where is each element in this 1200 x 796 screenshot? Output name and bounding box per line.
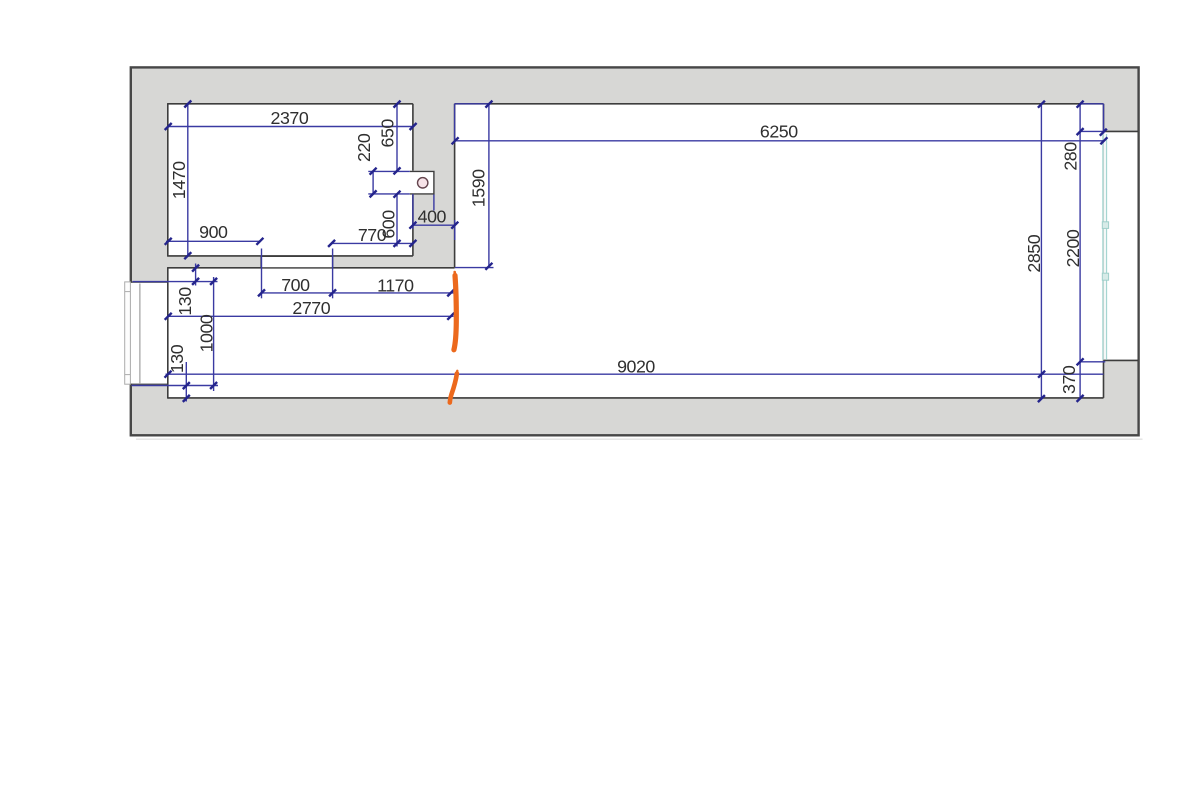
svg-text:1000: 1000 xyxy=(196,314,216,352)
room1 right wall xyxy=(412,104,414,256)
dim line 6250 xyxy=(455,140,1105,142)
dim chain 280/2200/370 xyxy=(1079,104,1081,399)
ticks 600 xyxy=(394,191,401,198)
svg-text:770: 770 xyxy=(358,225,387,245)
svg-text:2370: 2370 xyxy=(271,108,309,128)
ext overlay on room1 right wall below niche xyxy=(412,194,414,229)
ticks 1000 xyxy=(210,278,217,285)
svg-text:1590: 1590 xyxy=(469,169,489,207)
corridor left wall xyxy=(167,268,169,399)
interior door opening in room1 bottom wall xyxy=(261,257,333,268)
window void through right wall xyxy=(1104,132,1137,360)
ext niche bottom xyxy=(368,193,410,195)
svg-text:2850: 2850 xyxy=(1024,234,1044,272)
entry notch top jamb xyxy=(130,281,168,283)
dim line 1470 xyxy=(187,104,189,256)
ext down window inner face xyxy=(1103,104,1105,134)
ticks 220 xyxy=(370,168,377,175)
dim line 2370 xyxy=(168,126,413,128)
ticks 130 bottom xyxy=(183,382,190,389)
ext line below niche right edge xyxy=(433,195,435,211)
svg-text:400: 400 xyxy=(418,207,447,227)
concrete slab (exterior walls) xyxy=(131,67,1139,435)
dimension labels xyxy=(167,108,1083,394)
corridor interior (bottom band) xyxy=(169,269,456,398)
door opening right jamb xyxy=(332,256,334,268)
room2 left wall xyxy=(454,104,456,268)
dim line 700/1170 xyxy=(262,292,454,294)
room2 top wall xyxy=(455,103,1104,105)
ticks chain 280/2200/370 xyxy=(1077,101,1084,108)
ext overlay on room2 left wall at 400 dim xyxy=(454,220,456,240)
corridor / room2 bottom wall xyxy=(168,397,1104,399)
ext over room2 corner vertical xyxy=(454,104,456,142)
room1 bottom wall top face xyxy=(167,255,413,257)
svg-text:9020: 9020 xyxy=(617,356,655,376)
orange marker stroke upper (planned partition) xyxy=(450,272,458,403)
window sash mark upper xyxy=(1102,222,1108,229)
room 2 interior (big right room) xyxy=(455,105,1103,398)
svg-text:700: 700 xyxy=(281,275,310,295)
ticks 2850 xyxy=(1038,101,1045,108)
entry notch bottom jamb xyxy=(130,383,168,385)
dim line 9020 xyxy=(166,373,1104,375)
dim line 1590 xyxy=(488,104,490,267)
dim line 220 xyxy=(372,171,374,194)
svg-text:370: 370 xyxy=(1059,365,1079,394)
ticks 9020 xyxy=(165,371,172,378)
ticks 770 xyxy=(328,240,335,247)
niche outline (open left side) xyxy=(410,171,434,194)
svg-text:130: 130 xyxy=(167,344,187,373)
corridor top wall line xyxy=(167,267,455,269)
ventilation niche through room1 right wall xyxy=(410,171,434,195)
wall above window xyxy=(1103,104,1105,132)
ticks 1590 xyxy=(485,101,492,108)
ticks 650 xyxy=(394,101,401,108)
exterior door leaf line inside notch xyxy=(139,284,141,384)
wall below window xyxy=(1103,360,1105,398)
ext along top wall to window face xyxy=(1080,103,1103,105)
svg-text:1470: 1470 xyxy=(169,161,189,199)
ext for 1590 bottom tick xyxy=(455,267,494,269)
dim line 2770 xyxy=(168,315,454,317)
svg-text:650: 650 xyxy=(378,119,398,148)
dim line 900 xyxy=(166,240,260,242)
ticks 900 xyxy=(165,238,172,245)
dim line 770 xyxy=(331,242,413,244)
svg-text:280: 280 xyxy=(1061,142,1081,171)
svg-text:220: 220 xyxy=(354,133,374,162)
door opening left jamb xyxy=(260,256,262,268)
ext niche top xyxy=(368,170,410,172)
room1 top wall xyxy=(167,103,413,105)
svg-text:130: 130 xyxy=(175,287,195,316)
svg-text:900: 900 xyxy=(199,222,228,242)
orange marker stroke lower xyxy=(456,371,459,375)
room 1 interior (top-left room) xyxy=(169,105,413,256)
ext line door gap right xyxy=(332,249,334,299)
window bottom jamb xyxy=(1104,359,1139,361)
ext over room2 corner horizontal xyxy=(455,103,490,105)
blue dimension lines xyxy=(166,104,1105,402)
exterior door leaf marks outside left wall xyxy=(125,282,131,384)
faint shadow line below slab xyxy=(136,438,1143,440)
dimension tick marks xyxy=(165,101,1108,403)
ticks 700/1170 xyxy=(258,289,265,296)
svg-text:2770: 2770 xyxy=(292,298,330,318)
ext line door bottom-left upper xyxy=(133,281,218,283)
ext line door bottom-left lower xyxy=(132,385,219,387)
dim line 650 xyxy=(396,104,398,171)
window sash mark lower xyxy=(1102,273,1108,280)
svg-text:6250: 6250 xyxy=(760,121,798,141)
entry door notch through left wall xyxy=(129,283,167,384)
ext window bottom corner xyxy=(1080,361,1106,363)
svg-text:2200: 2200 xyxy=(1063,229,1083,267)
pipe circle in niche xyxy=(418,178,428,188)
ext window top corner xyxy=(1080,130,1103,132)
ext line door gap left xyxy=(261,249,263,299)
room1 left wall xyxy=(167,104,169,256)
dim line 600 xyxy=(396,194,398,247)
blue dimension extension lines xyxy=(132,104,1106,386)
ticks 400 xyxy=(409,222,416,229)
door opening thin top line xyxy=(261,256,333,258)
dim line 1000 xyxy=(213,277,215,391)
dim line 2850 xyxy=(1040,104,1042,399)
window top jamb xyxy=(1104,130,1139,132)
ticks 2370 xyxy=(165,123,172,130)
window glass lines xyxy=(1103,134,1107,360)
dim line 130 bottom xyxy=(185,362,187,402)
ticks 1470 xyxy=(184,101,191,108)
ticks 2770 xyxy=(165,313,172,320)
tick window corner xyxy=(1100,129,1107,136)
ticks 6250 xyxy=(452,137,459,144)
dim line 400 xyxy=(412,224,455,226)
dim line 130 top xyxy=(195,264,197,286)
wall lines xyxy=(130,104,1138,399)
ticks 130 top xyxy=(192,265,199,272)
svg-text:1170: 1170 xyxy=(377,275,414,295)
